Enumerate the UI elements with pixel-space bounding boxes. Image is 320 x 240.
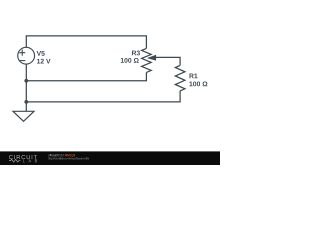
wire top net from V5 plus terminal across to R3 top	[26, 36, 146, 49]
watermark logo text LAB	[23, 160, 37, 163]
watermark title id text	[65, 154, 75, 157]
wiper arrow of R3	[147, 55, 156, 61]
watermark logo text CIRCUIT	[9, 155, 37, 159]
label 100 ohm of R1	[189, 81, 207, 86]
watermark logo resistor zigzag	[9, 159, 20, 162]
ground	[13, 111, 34, 121]
label R1	[189, 74, 197, 79]
node B junction dot	[24, 100, 28, 104]
label R3	[132, 51, 140, 56]
wire R3 bottom to node A	[26, 72, 146, 80]
voltage source V5	[18, 47, 35, 64]
label 100 ohm of R3	[121, 58, 139, 63]
footer watermark bar	[0, 151, 220, 165]
resistor R3 potentiometer body	[142, 48, 152, 72]
label V5	[37, 51, 45, 56]
label 12 V	[37, 59, 51, 64]
resistor R1	[175, 65, 185, 91]
node A junction dot	[24, 79, 28, 83]
wire V5 minus terminal down to ground	[25, 64, 27, 111]
watermark title text	[48, 154, 64, 156]
wire R3 wiper to R1 top	[156, 57, 180, 65]
wire node B across to R1 bottom	[26, 91, 180, 102]
watermark url text	[48, 157, 89, 160]
